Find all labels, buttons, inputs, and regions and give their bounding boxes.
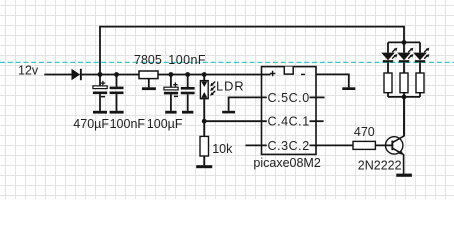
svg-text:100nF: 100nF bbox=[110, 117, 146, 131]
wire C.2 to resistor 470 bbox=[310, 144, 354, 146]
wire 12v to diode bbox=[44, 74, 71, 76]
svg-text:470: 470 bbox=[354, 125, 375, 139]
LED D4 bbox=[413, 42, 429, 62]
svg-text:100nF: 100nF bbox=[168, 53, 206, 67]
svg-text:LDR: LDR bbox=[216, 79, 244, 94]
svg-text:10k: 10k bbox=[212, 142, 233, 156]
net highlight dashed cyan bbox=[0, 61, 454, 63]
resistor R4 bbox=[384, 62, 392, 97]
svg-text:picaxe08M2: picaxe08M2 bbox=[253, 156, 320, 170]
ground regulator bbox=[142, 87, 156, 90]
svg-text:470µF: 470µF bbox=[73, 117, 109, 131]
wire IC minus pin to ground bbox=[316, 74, 349, 87]
svg-text:C.4C.1: C.4C.1 bbox=[268, 115, 310, 129]
capacitor C3 100uF bbox=[164, 75, 178, 111]
capacitor C2 100nF bbox=[110, 75, 124, 111]
junction node dots bbox=[98, 40, 407, 124]
wire LDR junction to C.4 pin bbox=[204, 120, 267, 122]
svg-text:2N2222: 2N2222 bbox=[358, 158, 402, 172]
svg-text:100µF: 100µF bbox=[147, 117, 183, 131]
LDR light arrows bbox=[210, 82, 215, 96]
pin C.3 C.2 row bbox=[246, 144, 267, 146]
resistor R2 10k bbox=[200, 136, 209, 165]
diode D1 bbox=[72, 69, 82, 80]
LED bus bottom bbox=[388, 96, 420, 98]
LED D2 bbox=[381, 42, 397, 62]
svg-text:7805: 7805 bbox=[134, 53, 162, 67]
ground C4 bbox=[182, 111, 193, 114]
regulator U2 7805 bbox=[139, 71, 158, 87]
svg-text:C.5C.0: C.5C.0 bbox=[268, 91, 310, 105]
transistor Q1 bbox=[375, 97, 404, 174]
pin C.4 C.1 row bbox=[310, 120, 324, 122]
ground IC bbox=[342, 87, 355, 90]
svg-text:C.3C.2: C.3C.2 bbox=[268, 139, 310, 153]
capacitor C4 100nF bbox=[181, 75, 195, 111]
IC U1 picaxe08M2 bbox=[262, 67, 317, 155]
ground transistor bbox=[396, 174, 412, 177]
capacitor C1 470uF bbox=[93, 75, 107, 111]
LED D3 bbox=[397, 42, 413, 62]
svg-text:12v: 12v bbox=[18, 64, 39, 78]
ground C2 bbox=[110, 111, 124, 114]
pin C.5 C.0 row bbox=[310, 96, 325, 98]
wire diode to regulator and IC + pin bbox=[81, 74, 270, 76]
ground C3 bbox=[165, 111, 176, 114]
wire bus to collector bbox=[403, 97, 405, 136]
wire 12v rail top loop bbox=[100, 27, 404, 75]
resistor R6 bbox=[416, 62, 424, 97]
LED bus top bbox=[388, 41, 420, 43]
ground C1 bbox=[93, 111, 107, 114]
wire C.5 to ground bbox=[229, 97, 267, 111]
ground C.5 bbox=[222, 111, 235, 114]
resistor R5 bbox=[400, 62, 408, 97]
ground 10k bbox=[196, 165, 212, 168]
LDR R1 bbox=[200, 75, 208, 137]
resistor R3 470 bbox=[353, 141, 375, 149]
